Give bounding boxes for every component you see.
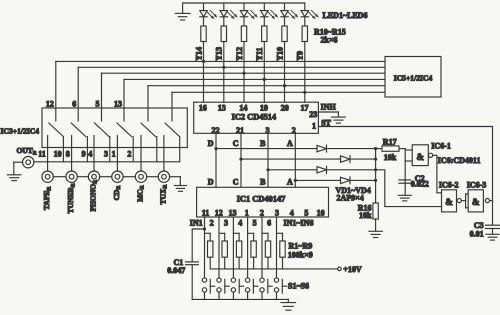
svg-text:TUNERR: TUNERR (66, 183, 76, 213)
svg-text:6: 6 (267, 218, 271, 227)
svg-text:C: C (233, 139, 239, 148)
svg-text:C3: C3 (474, 221, 484, 230)
svg-text:Y14: Y14 (194, 47, 203, 61)
svg-text:11: 11 (38, 150, 46, 159)
svg-text:10k: 10k (384, 153, 397, 162)
svg-text:9: 9 (82, 150, 86, 159)
svg-text:3: 3 (104, 150, 108, 159)
svg-text:4: 4 (290, 208, 294, 217)
svg-text:5: 5 (96, 99, 100, 108)
svg-text:10: 10 (317, 208, 325, 217)
svg-text:21: 21 (236, 126, 244, 135)
svg-text:2: 2 (260, 208, 264, 217)
svg-text:8: 8 (66, 150, 70, 159)
svg-text:IC5+1/2IC4: IC5+1/2IC4 (394, 74, 433, 83)
svg-text:IN1~IN6: IN1~IN6 (284, 218, 314, 227)
svg-text:13: 13 (229, 208, 237, 217)
svg-text:D: D (208, 139, 214, 148)
svg-text:R17: R17 (383, 138, 397, 147)
svg-text:0.022: 0.022 (411, 179, 429, 188)
svg-text:1: 1 (112, 150, 116, 159)
svg-text:12: 12 (215, 208, 223, 217)
svg-text:4: 4 (88, 150, 92, 159)
svg-text:IC6:CD4011: IC6:CD4011 (438, 156, 481, 165)
svg-text:10k: 10k (359, 211, 372, 220)
svg-text:5: 5 (304, 208, 308, 217)
svg-text:4: 4 (238, 218, 242, 227)
svg-text:5: 5 (253, 218, 257, 227)
svg-text:17: 17 (301, 103, 309, 112)
svg-text:12: 12 (46, 99, 54, 108)
svg-text:10: 10 (54, 150, 62, 159)
svg-text:19: 19 (260, 103, 268, 112)
svg-text:1: 1 (312, 122, 316, 131)
svg-text:Y12: Y12 (235, 47, 244, 61)
svg-text:&: & (416, 152, 424, 162)
svg-text:0.047: 0.047 (167, 266, 185, 275)
svg-text:Y9: Y9 (296, 51, 305, 61)
svg-text:S1~S6: S1~S6 (288, 281, 309, 290)
svg-text:&: & (445, 197, 453, 207)
svg-text:0.01: 0.01 (470, 230, 484, 239)
svg-text:IC1 CD40147: IC1 CD40147 (237, 195, 286, 204)
svg-text:2AP9×4: 2AP9×4 (337, 193, 364, 202)
svg-text:+10V: +10V (343, 265, 362, 274)
svg-text:Y13: Y13 (215, 47, 224, 61)
svg-text:11: 11 (202, 208, 210, 217)
svg-text:20: 20 (281, 103, 289, 112)
svg-text:LED1~LED6: LED1~LED6 (323, 11, 368, 20)
svg-text:B: B (260, 139, 266, 148)
svg-text:2: 2 (127, 150, 131, 159)
svg-text:Y11: Y11 (255, 47, 264, 60)
svg-text:D: D (208, 178, 214, 187)
svg-text:PHONOR: PHONOR (88, 180, 98, 212)
svg-text:INH: INH (321, 103, 337, 112)
svg-text:IC3+1/2IC4: IC3+1/2IC4 (1, 126, 40, 135)
svg-text:1: 1 (245, 208, 249, 217)
svg-text:IC6-3: IC6-3 (467, 180, 487, 189)
svg-text:IC6-2: IC6-2 (439, 180, 459, 189)
svg-text:13: 13 (218, 103, 226, 112)
svg-text:13: 13 (114, 99, 122, 108)
svg-text:6: 6 (72, 99, 76, 108)
svg-text:C: C (233, 178, 239, 187)
svg-text:23: 23 (309, 110, 317, 119)
svg-text:Y10: Y10 (275, 47, 284, 61)
svg-text:IC2 CD4514: IC2 CD4514 (232, 112, 277, 121)
svg-text:A: A (287, 178, 293, 187)
svg-text:14: 14 (239, 103, 247, 112)
svg-text:3: 3 (224, 218, 228, 227)
svg-text:IN1: IN1 (190, 218, 203, 227)
svg-text:100k×9: 100k×9 (288, 251, 313, 260)
svg-text:3: 3 (275, 208, 279, 217)
svg-text:16: 16 (199, 103, 207, 112)
svg-text:2k×6: 2k×6 (321, 35, 338, 44)
svg-text:&: & (472, 197, 480, 207)
svg-text:B: B (260, 178, 266, 187)
svg-text:ST: ST (321, 118, 331, 127)
svg-text:A: A (287, 139, 293, 148)
svg-text:2: 2 (210, 218, 214, 227)
svg-text:IC6-1: IC6-1 (431, 142, 451, 151)
svg-text:R1~R9: R1~R9 (289, 241, 313, 250)
